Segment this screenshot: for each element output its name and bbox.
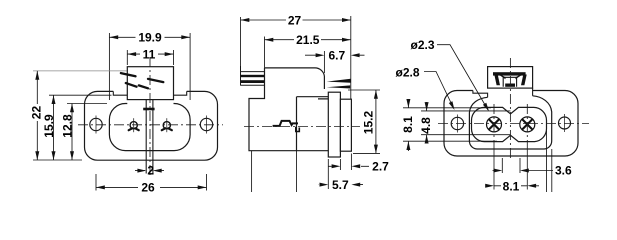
side view front boss xyxy=(340,99,351,151)
rear view horizontal centerline xyxy=(438,123,589,125)
svg-text:15.2: 15.2 xyxy=(362,110,376,134)
svg-text:15.9: 15.9 xyxy=(42,114,56,138)
svg-text:4.8: 4.8 xyxy=(419,117,433,134)
svg-text:8.1: 8.1 xyxy=(503,180,520,192)
side view body outline xyxy=(249,68,328,151)
dimension 15.2 xyxy=(348,90,380,153)
dimension 4.8 xyxy=(421,102,510,144)
rear mounting hole left xyxy=(451,117,463,129)
pin centerline right xyxy=(526,104,528,150)
dimension 2 xyxy=(135,170,164,172)
dimension 2.7 xyxy=(329,154,370,171)
side view mounting flange slab xyxy=(328,92,340,157)
side view latch wedge upper xyxy=(327,79,351,83)
front view mounting hole right xyxy=(200,118,212,130)
side view snap hook xyxy=(296,127,300,132)
rear view flange outline xyxy=(444,91,578,157)
side view extension line to cropped dim (left) xyxy=(251,151,253,192)
rear pin hole right xyxy=(520,117,535,132)
side view latch wedge lower xyxy=(327,85,351,88)
svg-text:3.6: 3.6 xyxy=(555,164,572,178)
dimension 22 xyxy=(33,159,82,161)
rear mounting hole right xyxy=(559,117,571,129)
side view centerline xyxy=(244,126,360,128)
front view vertical centerline xyxy=(149,57,151,178)
front view mounting hole left xyxy=(90,118,102,130)
front view flange outline xyxy=(85,91,218,160)
terminal pin pair (front, 2 wide) xyxy=(146,100,153,174)
svg-text:5.7: 5.7 xyxy=(332,178,349,192)
rear view extension to cropped dim 1 xyxy=(546,131,548,193)
svg-text:ø2.3: ø2.3 xyxy=(411,38,435,52)
svg-text:8.1: 8.1 xyxy=(401,116,415,133)
rear view vertical centerline xyxy=(509,58,511,160)
svg-text:ø2.8: ø2.8 xyxy=(396,65,420,79)
rear view extension to cropped dim 2 xyxy=(551,149,553,192)
rear view boss step left xyxy=(473,91,488,98)
front view inner recess outline xyxy=(109,104,190,151)
dimension 12.8 xyxy=(67,104,107,161)
pin centerline left xyxy=(493,104,495,150)
terminal shoulder bar xyxy=(143,108,154,111)
side view extension line to cropped dim (mid) xyxy=(296,151,298,192)
svg-text:19.9: 19.9 xyxy=(138,30,162,44)
tab break marks xyxy=(121,73,163,88)
svg-text:27: 27 xyxy=(288,13,302,27)
front view boss step left xyxy=(113,91,127,95)
svg-text:2.7: 2.7 xyxy=(372,160,389,174)
rear view boss outline xyxy=(469,96,551,149)
contact pin right (front view) xyxy=(163,122,170,129)
front view horizontal centerline xyxy=(78,124,223,126)
rear view top cover box xyxy=(488,67,533,89)
dimension 8.1 (bottom, pin spacing) xyxy=(486,185,540,187)
rear view figure-8 recess xyxy=(472,107,547,141)
dimension 21.5 xyxy=(265,37,351,68)
dimension 8.1 (left, height) xyxy=(403,99,497,151)
contact pin left (front view) xyxy=(130,122,137,129)
svg-text:2: 2 xyxy=(147,164,154,178)
dimension 3.6 xyxy=(493,158,554,173)
dimension 6.7 xyxy=(305,51,365,73)
svg-text:21.5: 21.5 xyxy=(296,33,320,47)
front view boss step right xyxy=(174,91,187,95)
dimension 5.7 xyxy=(319,159,364,189)
front view terminal tab (broken view) xyxy=(127,67,173,100)
faint extension line xyxy=(33,70,127,72)
svg-text:6.7: 6.7 xyxy=(328,48,345,62)
dimension 19.9 xyxy=(109,33,190,100)
rear view boss step right xyxy=(532,88,534,96)
side view solder terminal (sectioned) xyxy=(241,66,265,86)
svg-text:11: 11 xyxy=(143,47,156,61)
dimension 26 xyxy=(96,174,207,191)
side view lower snap zigzag xyxy=(273,121,298,126)
svg-text:12.8: 12.8 xyxy=(60,114,74,138)
dimension 27 xyxy=(241,16,351,99)
label diameter 2.3 leader xyxy=(437,45,488,110)
rear pin hole left xyxy=(487,117,502,132)
cover section hatching xyxy=(493,72,527,87)
dimension 15.9 xyxy=(49,95,112,160)
dimension 11 xyxy=(127,50,173,65)
label diameter 2.8 leader xyxy=(424,72,454,109)
svg-text:26: 26 xyxy=(141,181,155,192)
